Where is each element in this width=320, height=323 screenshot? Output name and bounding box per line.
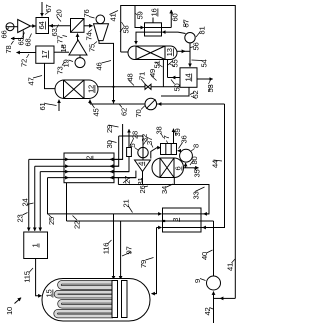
svg-text:55: 55	[171, 59, 180, 67]
svg-text:45: 45	[92, 108, 101, 116]
svg-text:35: 35	[193, 169, 202, 177]
svg-text:53: 53	[206, 84, 215, 92]
svg-text:59: 59	[136, 11, 145, 19]
svg-text:28: 28	[131, 131, 140, 139]
svg-text:39: 39	[173, 128, 182, 136]
svg-text:58: 58	[122, 25, 131, 33]
svg-text:63: 63	[50, 28, 59, 36]
svg-text:12: 12	[87, 85, 96, 93]
svg-text:75: 75	[88, 44, 97, 52]
svg-text:17: 17	[40, 50, 49, 58]
svg-text:9: 9	[193, 279, 202, 283]
svg-text:52: 52	[191, 90, 200, 98]
svg-text:16: 16	[150, 8, 159, 16]
svg-text:81: 81	[198, 26, 207, 34]
svg-text:47: 47	[27, 77, 36, 85]
svg-text:20: 20	[55, 9, 64, 17]
svg-text:48: 48	[126, 73, 135, 81]
svg-text:97: 97	[125, 246, 134, 254]
svg-text:60: 60	[171, 13, 180, 21]
svg-text:49: 49	[148, 69, 157, 77]
svg-text:4: 4	[136, 162, 145, 166]
svg-text:30: 30	[105, 140, 114, 148]
svg-text:77: 77	[56, 35, 65, 43]
svg-text:41: 41	[226, 263, 235, 271]
svg-text:31: 31	[136, 177, 145, 185]
svg-text:57: 57	[182, 19, 191, 27]
svg-text:6: 6	[174, 166, 183, 170]
svg-text:46: 46	[95, 62, 104, 70]
svg-text:8: 8	[192, 144, 201, 148]
svg-text:7: 7	[162, 135, 171, 139]
svg-text:54: 54	[200, 59, 209, 67]
svg-text:5: 5	[128, 143, 137, 147]
svg-text:78: 78	[4, 45, 13, 53]
svg-text:79: 79	[139, 260, 148, 268]
svg-text:67: 67	[44, 4, 53, 12]
svg-text:62: 62	[120, 108, 129, 116]
svg-text:56: 56	[192, 42, 201, 50]
svg-text:27: 27	[123, 176, 132, 184]
svg-text:2: 2	[85, 156, 94, 160]
svg-text:50: 50	[173, 83, 182, 91]
svg-text:36: 36	[180, 135, 189, 143]
svg-text:40: 40	[200, 252, 209, 260]
svg-text:80: 80	[190, 156, 199, 164]
svg-text:64: 64	[37, 21, 46, 29]
svg-text:41: 41	[109, 13, 118, 21]
svg-text:34: 34	[160, 186, 169, 194]
svg-text:29: 29	[105, 125, 114, 133]
svg-text:3: 3	[171, 218, 180, 222]
svg-text:37: 37	[145, 137, 154, 145]
svg-text:33: 33	[192, 191, 201, 199]
svg-text:1: 1	[31, 243, 40, 247]
svg-text:14: 14	[183, 73, 192, 81]
svg-text:66: 66	[0, 30, 9, 38]
svg-text:23: 23	[16, 214, 25, 222]
svg-text:76: 76	[82, 9, 91, 17]
svg-text:72: 72	[20, 59, 29, 67]
svg-text:24: 24	[21, 198, 30, 206]
svg-text:15: 15	[45, 289, 54, 297]
svg-text:116: 116	[102, 243, 111, 255]
svg-text:18: 18	[59, 44, 68, 52]
svg-text:25: 25	[47, 217, 56, 225]
svg-text:51: 51	[153, 60, 162, 68]
svg-text:19: 19	[62, 59, 71, 67]
svg-text:21: 21	[122, 199, 131, 207]
svg-text:13: 13	[165, 48, 174, 56]
svg-text:44: 44	[211, 160, 220, 168]
svg-text:61: 61	[38, 102, 47, 110]
svg-text:115: 115	[23, 271, 32, 283]
svg-text:38: 38	[155, 126, 164, 134]
svg-text:68: 68	[24, 38, 33, 46]
svg-text:22: 22	[73, 221, 82, 229]
svg-text:42: 42	[203, 307, 212, 315]
svg-text:70: 70	[134, 109, 143, 117]
svg-text:71: 71	[138, 72, 147, 80]
svg-text:26: 26	[138, 185, 147, 193]
svg-text:74: 74	[85, 32, 94, 40]
svg-text:10: 10	[5, 307, 14, 315]
